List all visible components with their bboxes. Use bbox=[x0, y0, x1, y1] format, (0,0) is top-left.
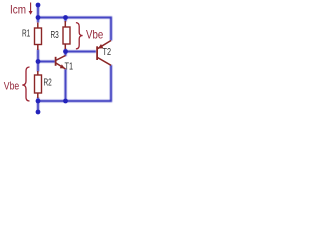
svg-text:R3: R3 bbox=[51, 30, 60, 41]
svg-text:R1: R1 bbox=[22, 29, 31, 40]
svg-text:T2: T2 bbox=[103, 47, 112, 58]
svg-text:Vbe: Vbe bbox=[4, 80, 19, 92]
svg-text:T1: T1 bbox=[65, 62, 74, 73]
svg-text:Vbe: Vbe bbox=[86, 28, 103, 42]
svg-text:Icm: Icm bbox=[10, 3, 26, 17]
svg-text:R2: R2 bbox=[44, 78, 53, 89]
